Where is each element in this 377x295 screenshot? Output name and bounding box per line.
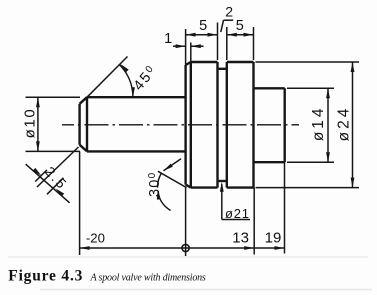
- dim 5 left line: [186, 34, 218, 36]
- dim diam10 extension lines: [26, 96, 81, 98]
- svg-text:13: 13: [232, 230, 249, 247]
- dim -20 line: [80, 247, 186, 249]
- bottom extension line left end: [79, 151, 81, 255]
- dim 30deg arc: [158, 173, 162, 188]
- svg-text:-20: -20: [86, 230, 105, 245]
- dim 1 extension lines: [185, 29, 187, 65]
- dim diam10 dimension line: [37, 97, 39, 151]
- dim 45deg arc arrows: [120, 64, 128, 72]
- scan streak top of caption: [8, 256, 368, 258]
- dim 5 right line: [227, 34, 254, 36]
- dim 45deg angle reference line: [87, 57, 128, 98]
- dim diam14 extension lines: [287, 87, 334, 89]
- svg-text:19: 19: [265, 230, 282, 247]
- svg-text:ø21: ø21: [225, 206, 250, 221]
- right cylinder (diam 14): [254, 87, 285, 89]
- scan streak bottom: [40, 289, 372, 291]
- svg-text:5: 5: [236, 18, 244, 34]
- spool shaft body (diam 10): [87, 96, 186, 98]
- dim 30deg lower arrow: [158, 191, 170, 211]
- svg-text:2: 2: [225, 4, 233, 20]
- dim 5-2-5 extension lines: [217, 23, 219, 61]
- dim 19 line: [254, 247, 284, 249]
- dim diam21 leader arrow: [221, 184, 223, 220]
- dim diam24 extension lines: [256, 61, 360, 63]
- dim 2.5 dimension line: [26, 164, 70, 203]
- svg-text:ø14: ø14: [310, 105, 327, 141]
- dim 2.5 chamfer extension diagonal: [37, 147, 79, 187]
- bottom extension line origin: [185, 188, 187, 256]
- svg-text:5: 5: [199, 18, 207, 34]
- dim diam21 underline: [222, 219, 250, 221]
- dim 2.5 arrows: [33, 168, 42, 176]
- dim 30deg upper arrow: [164, 159, 182, 171]
- svg-text:1: 1: [164, 31, 172, 47]
- dim diam24 dimension line: [352, 62, 354, 188]
- dim 2.5 extension tick 1: [35, 170, 47, 182]
- dim 2 leader: [224, 19, 234, 21]
- dim 45deg arc: [120, 65, 134, 98]
- dim 13 line: [186, 247, 255, 249]
- svg-text:Figure 4.3: Figure 4.3: [8, 267, 83, 284]
- origin marker circle: [182, 244, 189, 251]
- svg-text:A spool valve with dimensions: A spool valve with dimensions: [90, 272, 206, 283]
- spool flange lands (diam 24): [184, 65, 186, 185]
- dim 2.5 extension tick 2: [47, 178, 64, 195]
- dim 30deg reference line: [158, 171, 187, 187]
- dim 1 arrows: [173, 45, 186, 47]
- svg-text:ø10: ø10: [22, 108, 39, 139]
- svg-text:ø24: ø24: [335, 106, 352, 142]
- dim diam14 dimension line: [327, 88, 329, 162]
- bottom extension line part end: [284, 162, 286, 253]
- bottom extension line flange right: [253, 188, 255, 255]
- centerline axis: [62, 124, 299, 126]
